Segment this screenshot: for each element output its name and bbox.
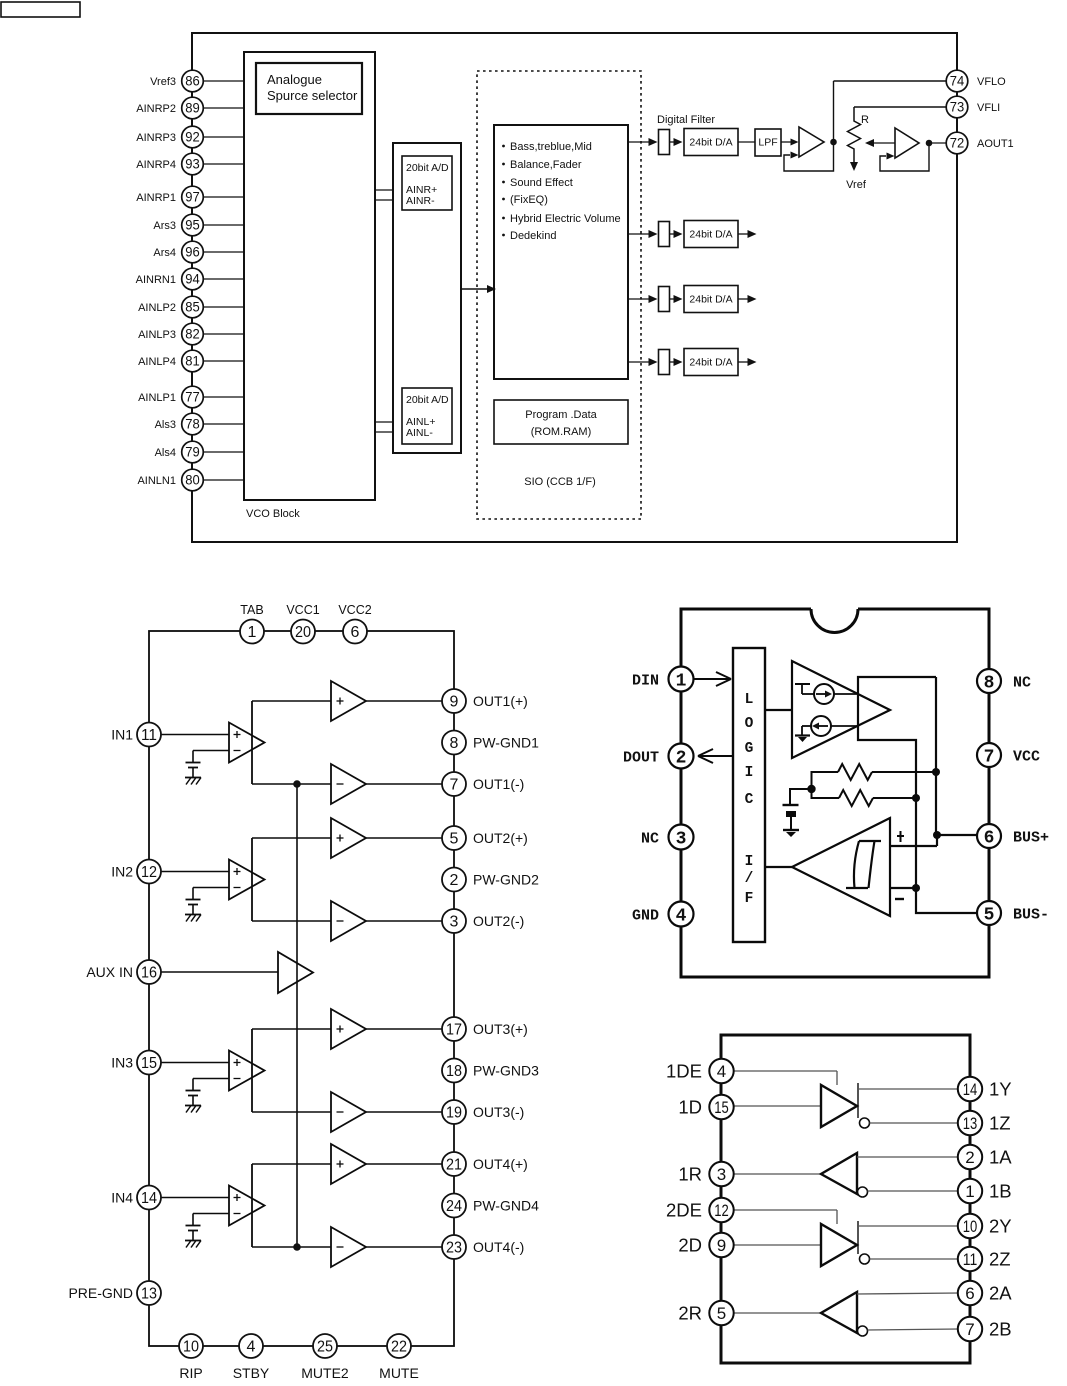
svg-text:AINRP4: AINRP4 xyxy=(136,159,176,171)
svg-text:2: 2 xyxy=(676,748,687,768)
svg-text:89: 89 xyxy=(185,101,200,116)
svg-text:PW-GND4: PW-GND4 xyxy=(473,1197,539,1213)
svg-text:LPF: LPF xyxy=(758,137,777,149)
svg-text:F: F xyxy=(745,891,754,907)
svg-text:13: 13 xyxy=(963,1114,978,1133)
svg-text:2Z: 2Z xyxy=(989,1248,1011,1269)
svg-text:6: 6 xyxy=(965,1284,974,1303)
svg-text:BUS-: BUS- xyxy=(1013,906,1049,923)
svg-text:Program .Data: Program .Data xyxy=(525,409,597,421)
svg-text:DIN: DIN xyxy=(632,672,659,689)
svg-text:I: I xyxy=(745,854,754,870)
svg-text:8: 8 xyxy=(984,673,995,693)
svg-text:TAB: TAB xyxy=(240,603,263,617)
svg-text:24bit D/A: 24bit D/A xyxy=(689,294,732,306)
svg-text:C: C xyxy=(745,792,754,808)
svg-text:4: 4 xyxy=(717,1062,726,1081)
svg-text:72: 72 xyxy=(950,136,965,151)
svg-text:PRE-GND: PRE-GND xyxy=(68,1285,133,1301)
svg-text:Vref: Vref xyxy=(846,179,867,191)
svg-text:MUTE2: MUTE2 xyxy=(301,1365,349,1381)
svg-text:MUTE: MUTE xyxy=(379,1365,419,1381)
svg-text:Hybrid Electric Volume: Hybrid Electric Volume xyxy=(510,213,621,225)
svg-text:AINLP2: AINLP2 xyxy=(138,302,176,314)
svg-text:1DE: 1DE xyxy=(666,1060,702,1081)
svg-text:20: 20 xyxy=(295,624,311,641)
svg-text:16: 16 xyxy=(141,965,157,982)
svg-text:VFLI: VFLI xyxy=(977,102,1000,114)
svg-text:IN4: IN4 xyxy=(111,1189,133,1205)
svg-text:11: 11 xyxy=(141,727,157,744)
svg-text:15: 15 xyxy=(714,1098,729,1117)
svg-text:20bit A/D: 20bit A/D xyxy=(406,162,449,174)
svg-text:O: O xyxy=(745,716,754,732)
svg-text:AINLP3: AINLP3 xyxy=(138,329,176,341)
svg-text:OUT1(+): OUT1(+) xyxy=(473,693,528,709)
svg-text:93: 93 xyxy=(185,157,200,172)
svg-text:OUT2(-): OUT2(-) xyxy=(473,913,524,929)
svg-text:IN1: IN1 xyxy=(111,726,133,742)
svg-text:PW-GND3: PW-GND3 xyxy=(473,1062,539,1078)
svg-text:12: 12 xyxy=(141,864,157,881)
svg-text:9: 9 xyxy=(450,694,459,711)
svg-text:VFLO: VFLO xyxy=(977,76,1006,88)
svg-text:2: 2 xyxy=(450,872,459,889)
svg-text:1A: 1A xyxy=(989,1146,1012,1167)
svg-text:1Y: 1Y xyxy=(989,1078,1012,1099)
svg-text:1R: 1R xyxy=(678,1163,702,1184)
svg-text:10: 10 xyxy=(963,1217,978,1236)
svg-text:OUT2(+): OUT2(+) xyxy=(473,830,528,846)
svg-text:AINLN1: AINLN1 xyxy=(137,475,176,487)
svg-text:94: 94 xyxy=(185,272,200,287)
svg-text:24bit D/A: 24bit D/A xyxy=(689,229,732,241)
svg-text:7: 7 xyxy=(965,1320,974,1339)
svg-text:1: 1 xyxy=(676,671,687,691)
svg-text:I: I xyxy=(745,765,754,781)
svg-text:VCC1: VCC1 xyxy=(286,603,319,617)
svg-text:77: 77 xyxy=(185,390,200,405)
svg-text:Als3: Als3 xyxy=(155,419,176,431)
svg-text:Vref3: Vref3 xyxy=(150,76,176,88)
svg-text:2Y: 2Y xyxy=(989,1215,1012,1236)
svg-text:3: 3 xyxy=(450,914,459,931)
svg-text:2D: 2D xyxy=(678,1234,702,1255)
svg-text:25: 25 xyxy=(317,1339,333,1356)
svg-text:VCC2: VCC2 xyxy=(338,603,371,617)
svg-text:6: 6 xyxy=(351,624,360,641)
svg-text:NC: NC xyxy=(641,830,659,847)
svg-text:AINRP1: AINRP1 xyxy=(136,192,176,204)
svg-text:18: 18 xyxy=(446,1063,462,1080)
svg-text:IN2: IN2 xyxy=(111,863,133,879)
svg-text:81: 81 xyxy=(185,354,200,369)
svg-text:AINRP2: AINRP2 xyxy=(136,103,176,115)
svg-text:1D: 1D xyxy=(678,1096,702,1117)
svg-text:78: 78 xyxy=(185,417,200,432)
svg-text:Bass,treblue,Mid: Bass,treblue,Mid xyxy=(510,141,592,153)
svg-text:79: 79 xyxy=(185,445,200,460)
svg-text:22: 22 xyxy=(391,1339,407,1356)
svg-text:OUT1(-): OUT1(-) xyxy=(473,776,524,792)
svg-text:95: 95 xyxy=(185,218,200,233)
svg-text:20bit A/D: 20bit A/D xyxy=(406,394,449,406)
svg-text:Spurce selector: Spurce selector xyxy=(267,88,358,103)
svg-text:PW-GND2: PW-GND2 xyxy=(473,871,539,887)
svg-text:9: 9 xyxy=(717,1236,726,1255)
svg-text:10: 10 xyxy=(183,1339,199,1356)
svg-text:AINR-: AINR- xyxy=(406,195,435,207)
svg-text:7: 7 xyxy=(450,777,459,794)
svg-text:17: 17 xyxy=(446,1022,462,1039)
svg-text:OUT3(+): OUT3(+) xyxy=(473,1021,528,1037)
svg-text:24bit D/A: 24bit D/A xyxy=(689,357,732,369)
svg-text:/: / xyxy=(745,871,754,887)
svg-text:OUT3(-): OUT3(-) xyxy=(473,1104,524,1120)
svg-text:PW-GND1: PW-GND1 xyxy=(473,734,539,750)
svg-text:74: 74 xyxy=(950,74,965,89)
svg-text:RIP: RIP xyxy=(179,1365,202,1381)
svg-text:85: 85 xyxy=(185,300,200,315)
svg-text:(ROM.RAM): (ROM.RAM) xyxy=(531,426,592,438)
svg-text:2DE: 2DE xyxy=(666,1199,702,1220)
svg-text:5: 5 xyxy=(717,1304,726,1323)
svg-text:24bit D/A: 24bit D/A xyxy=(689,137,732,149)
svg-text:3: 3 xyxy=(676,829,687,849)
svg-text:15: 15 xyxy=(141,1055,157,1072)
svg-text:82: 82 xyxy=(185,327,200,342)
svg-text:1Z: 1Z xyxy=(989,1112,1011,1133)
svg-text:AUX IN: AUX IN xyxy=(86,964,133,980)
svg-text:73: 73 xyxy=(950,100,965,115)
svg-text:(FixEQ): (FixEQ) xyxy=(510,194,548,206)
svg-text:86: 86 xyxy=(185,74,200,89)
svg-text:Sound Effect: Sound Effect xyxy=(510,177,573,189)
svg-text:7: 7 xyxy=(984,747,995,767)
svg-text:21: 21 xyxy=(446,1157,462,1174)
svg-text:1: 1 xyxy=(248,624,257,641)
svg-text:4: 4 xyxy=(247,1339,256,1356)
svg-text:24: 24 xyxy=(446,1198,462,1215)
svg-text:AINRN1: AINRN1 xyxy=(136,274,176,286)
svg-text:6: 6 xyxy=(984,828,995,848)
svg-text:BUS+: BUS+ xyxy=(1013,829,1049,846)
svg-text:Dedekind: Dedekind xyxy=(510,230,556,242)
svg-text:23: 23 xyxy=(446,1240,462,1257)
svg-text:97: 97 xyxy=(185,190,200,205)
svg-text:2: 2 xyxy=(965,1148,974,1167)
svg-text:Ars4: Ars4 xyxy=(153,247,176,259)
svg-text:AOUT1: AOUT1 xyxy=(977,138,1014,150)
svg-text:5: 5 xyxy=(450,831,459,848)
svg-text:Als4: Als4 xyxy=(155,447,176,459)
svg-text:4: 4 xyxy=(676,906,687,926)
svg-text:12: 12 xyxy=(714,1201,729,1220)
svg-text:8: 8 xyxy=(450,735,459,752)
svg-text:13: 13 xyxy=(141,1286,157,1303)
svg-text:VCC: VCC xyxy=(1013,748,1040,765)
svg-text:92: 92 xyxy=(185,130,200,145)
svg-text:AINLP1: AINLP1 xyxy=(138,392,176,404)
svg-text:11: 11 xyxy=(963,1250,978,1269)
svg-text:OUT4(+): OUT4(+) xyxy=(473,1156,528,1172)
svg-text:NC: NC xyxy=(1013,674,1031,691)
svg-text:VCO Block: VCO Block xyxy=(246,508,300,520)
svg-text:Digital Filter: Digital Filter xyxy=(657,114,715,126)
svg-text:GND: GND xyxy=(632,907,659,924)
svg-text:STBY: STBY xyxy=(233,1365,270,1381)
svg-text:AINRP3: AINRP3 xyxy=(136,132,176,144)
svg-text:AINLP4: AINLP4 xyxy=(138,356,176,368)
svg-text:IN3: IN3 xyxy=(111,1054,133,1070)
svg-text:OUT4(-): OUT4(-) xyxy=(473,1239,524,1255)
svg-text:SIO (CCB 1/F): SIO (CCB 1/F) xyxy=(524,476,596,488)
svg-text:2R: 2R xyxy=(678,1302,702,1323)
svg-text:5: 5 xyxy=(984,905,995,925)
svg-text:3: 3 xyxy=(717,1165,726,1184)
svg-text:80: 80 xyxy=(185,473,200,488)
svg-text:AINL-: AINL- xyxy=(406,427,433,439)
svg-text:R: R xyxy=(861,114,869,126)
svg-text:2B: 2B xyxy=(989,1318,1012,1339)
svg-text:14: 14 xyxy=(963,1080,978,1099)
svg-text:1: 1 xyxy=(965,1182,974,1201)
svg-text:G: G xyxy=(745,741,754,757)
svg-text:2A: 2A xyxy=(989,1282,1012,1303)
svg-text:Balance,Fader: Balance,Fader xyxy=(510,159,582,171)
svg-text:DOUT: DOUT xyxy=(623,749,659,766)
svg-text:96: 96 xyxy=(185,245,200,260)
svg-text:Analogue: Analogue xyxy=(267,72,322,87)
svg-text:L: L xyxy=(745,692,754,708)
svg-text:Ars3: Ars3 xyxy=(153,220,176,232)
svg-text:19: 19 xyxy=(446,1105,462,1122)
svg-text:1B: 1B xyxy=(989,1180,1012,1201)
svg-text:14: 14 xyxy=(141,1190,157,1207)
